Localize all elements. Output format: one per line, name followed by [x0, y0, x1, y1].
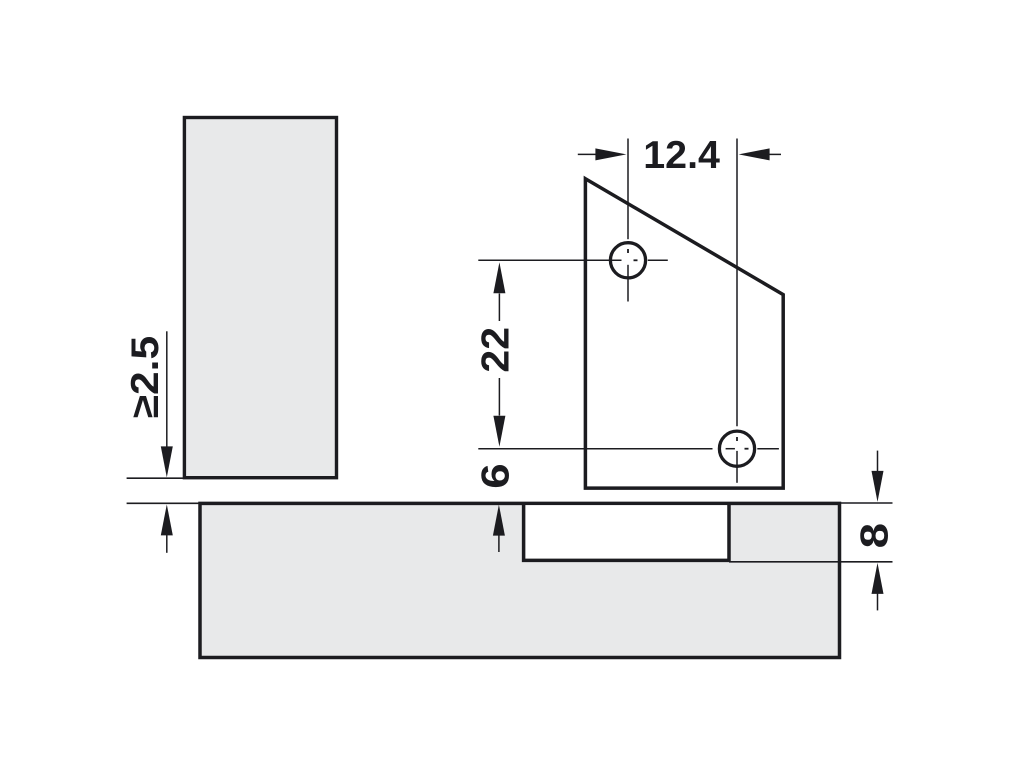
svg-text:8: 8	[852, 523, 895, 548]
svg-text:6: 6	[473, 463, 516, 488]
svg-text:12.4: 12.4	[643, 134, 720, 177]
svg-text:≥2.5: ≥2.5	[123, 336, 167, 418]
svg-text:22: 22	[474, 327, 517, 373]
